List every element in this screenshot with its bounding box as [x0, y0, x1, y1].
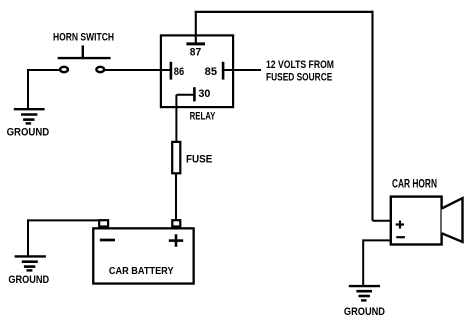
wire relay pin 85 to fused source: [223, 69, 261, 71]
wire down to ground (switch): [27, 69, 29, 110]
svg-text:12 VOLTS FROM: 12 VOLTS FROM: [266, 59, 334, 71]
relay pin 85 terminal bar: [222, 62, 225, 80]
relay pin 87 terminal bar: [186, 42, 205, 45]
svg-text:CAR HORN: CAR HORN: [392, 179, 437, 191]
svg-text:GROUND: GROUND: [8, 274, 49, 286]
svg-text:85: 85: [205, 66, 217, 78]
wire top horizontal from pin 87 to car horn branch: [195, 11, 374, 13]
wire battery - terminal to ground: [28, 219, 99, 221]
relay box: [161, 35, 233, 107]
wire down to ground (battery): [27, 219, 29, 255]
svg-text:86: 86: [174, 66, 184, 78]
wire pin 87 up through box top: [195, 11, 197, 44]
svg-text:GROUND: GROUND: [7, 127, 50, 139]
battery + terminal nub: [172, 220, 180, 226]
battery minus mark: [100, 239, 115, 242]
wire from ground to switch left contact: [28, 69, 59, 71]
svg-text:GROUND: GROUND: [344, 306, 385, 318]
svg-text:30: 30: [198, 88, 210, 100]
pin 30 stub wire: [177, 94, 195, 96]
svg-text:HORN SWITCH: HORN SWITCH: [53, 31, 114, 43]
car horn cone: [442, 198, 463, 242]
fuse F1: [172, 142, 180, 173]
wire down to ground (horn): [362, 239, 364, 286]
ground (switch): [14, 109, 45, 123]
car battery box: [93, 228, 193, 283]
wire relay pin 30 down to fuse: [175, 95, 177, 142]
wire switch to relay pin 86: [105, 69, 171, 71]
wire into car horn + terminal: [373, 220, 392, 222]
wire fuse to battery + terminal: [175, 173, 177, 219]
svg-text:RELAY: RELAY: [190, 110, 216, 122]
car horn body: [391, 197, 442, 245]
svg-text:FUSE: FUSE: [186, 153, 212, 165]
wire car horn - terminal left: [363, 239, 391, 241]
label 12 VOLTS FROM FUSED SOURCE: [266, 59, 334, 83]
plus terminal mark: [396, 221, 404, 229]
battery - terminal nub: [99, 220, 108, 226]
svg-text:87: 87: [190, 46, 201, 58]
minus terminal mark: [396, 236, 405, 238]
wire right vertical down to car horn +: [371, 11, 373, 221]
ground (battery): [15, 256, 46, 270]
battery plus mark: [169, 234, 183, 247]
svg-text:CAR BATTERY: CAR BATTERY: [109, 265, 174, 277]
relay pin 30 terminal bar: [193, 87, 196, 101]
svg-text:FUSED SOURCE: FUSED SOURCE: [266, 71, 332, 83]
relay pin 86 terminal bar: [170, 62, 173, 80]
horn switch S1: [58, 45, 111, 72]
ground (horn): [349, 286, 380, 300]
